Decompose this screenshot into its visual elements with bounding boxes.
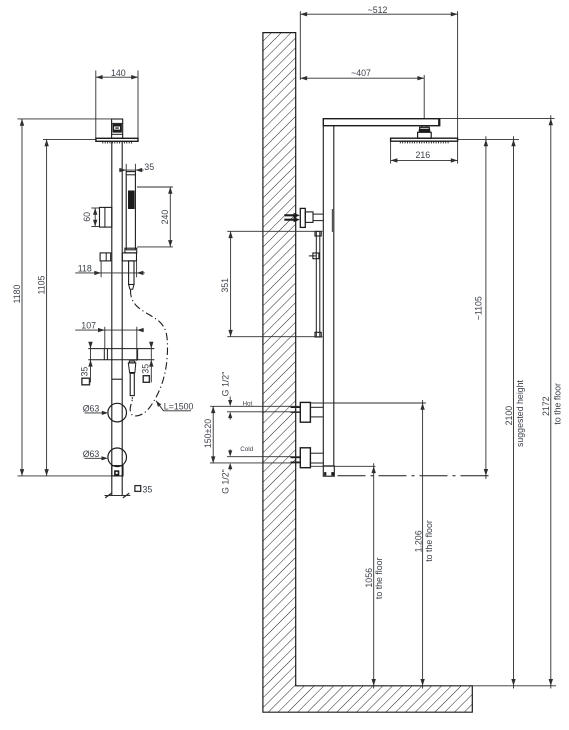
svg-text:Hot: Hot — [243, 400, 253, 407]
svg-text:351: 351 — [220, 278, 230, 293]
dimension square 35 bottom (front view) — [105, 484, 153, 498]
svg-text:1.206: 1.206 — [413, 530, 423, 552]
shower head plate (front view) — [96, 138, 138, 141]
svg-text:60: 60 — [82, 212, 92, 222]
svg-text:35: 35 — [144, 162, 154, 172]
label Hot — [243, 400, 253, 407]
dashed line column bottom level (side view) — [338, 475, 490, 477]
hot supply line to wall — [210, 406, 300, 412]
svg-text:to the floor: to the floor — [374, 557, 384, 599]
svg-text:118: 118 — [78, 263, 92, 273]
svg-text:~512: ~512 — [368, 5, 388, 15]
shower head nozzles (front view) — [103, 142, 132, 144]
dimension 1056 to the floor — [364, 463, 384, 688]
svg-text:~407: ~407 — [351, 68, 371, 78]
hand shower hose (dash-dot, front view) — [130, 290, 167, 416]
hose outlet connector (front view) — [128, 361, 136, 399]
hand shower body (front view) — [126, 172, 135, 250]
dimension 2172 to the floor — [541, 115, 563, 688]
dimension 107 (front view) — [75, 320, 144, 361]
dimension 118 (front view) — [75, 262, 145, 278]
top horizontal arm (side view) — [323, 119, 439, 126]
shower head ball joint (side view) — [418, 126, 432, 139]
svg-text:to the floor: to the floor — [424, 520, 434, 562]
cold valve bottom extension line — [310, 465, 375, 467]
wall rail (side view) — [315, 231, 321, 337]
diverter knob 1 (front view) — [108, 403, 127, 422]
column bar (front view) — [112, 141, 122, 495]
hand shower handle outlet (front view) — [129, 261, 134, 289]
label diameter 63 upper — [83, 404, 109, 415]
dimension 2100 suggested height — [504, 136, 525, 688]
hot valve top extension line — [310, 402, 426, 404]
svg-text:1180: 1180 — [12, 284, 22, 303]
column bottom cap (side view) — [323, 466, 334, 476]
dimension ~512 (side view) — [300, 5, 457, 138]
extension line arm to 2172 — [440, 117, 555, 119]
svg-text:G 1/2": G 1/2" — [221, 372, 231, 397]
svg-text:107: 107 — [81, 320, 96, 330]
supply flow arrows (black) — [284, 213, 300, 222]
water supply fitting (side view) — [300, 208, 323, 227]
svg-text:suggested height: suggested height — [515, 379, 525, 447]
svg-text:35: 35 — [140, 364, 150, 374]
dimension 1105 (front view) — [36, 139, 48, 476]
upper wall holder (front view) — [100, 207, 112, 227]
svg-text:35: 35 — [143, 484, 153, 494]
dimension 1.206 to the floor — [413, 400, 434, 689]
label G 1/2 inch top — [221, 372, 233, 420]
svg-text:Cold: Cold — [240, 446, 253, 453]
floor top extension line (right) — [472, 685, 556, 687]
wall and floor section (hatched) — [263, 33, 472, 713]
svg-text:G 1/2": G 1/2" — [221, 469, 231, 494]
dimension 351 (side view) — [220, 231, 322, 336]
label diameter 63 lower — [83, 449, 108, 461]
svg-text:~1105: ~1105 — [473, 296, 483, 320]
dimension 1180 (front view) — [12, 119, 24, 476]
dimension ~407 (side view) — [300, 68, 424, 119]
top bracket / arm mount (front view) — [112, 119, 123, 138]
lower holder bar (front view) — [88, 349, 154, 360]
dimension 240 (hand shower length) — [137, 187, 173, 247]
svg-text:Ø63: Ø63 — [83, 404, 100, 414]
label G 1/2 inch bottom — [221, 449, 233, 494]
dimension 216 (head, side view) — [391, 141, 458, 163]
extension line 1180 top — [18, 118, 112, 120]
dimension 35 (hand shower width) — [119, 162, 154, 172]
svg-text:2100: 2100 — [504, 406, 514, 426]
cold supply line to wall — [210, 457, 300, 463]
svg-text:35: 35 — [80, 367, 90, 377]
dimension 150±20 (side view) — [203, 406, 215, 463]
shower head plate (side view) — [391, 138, 458, 141]
cold water valve (side view) — [291, 448, 324, 468]
svg-text:1105: 1105 — [36, 275, 46, 294]
svg-text:to the floor: to the floor — [553, 383, 563, 425]
dimension 35 left (square profile) — [80, 342, 93, 385]
label Cold — [240, 446, 253, 453]
dimension ~1105 (side view) — [473, 136, 488, 479]
column bottom box with fixing screw (front view) — [112, 466, 123, 476]
svg-text:L=1500: L=1500 — [164, 401, 194, 411]
svg-text:2172: 2172 — [541, 396, 551, 416]
svg-text:150±20: 150±20 — [203, 419, 213, 448]
diverter knob 2 (front view) — [108, 448, 127, 467]
svg-text:1056: 1056 — [364, 568, 374, 588]
extension line bottom (front view) — [18, 475, 124, 477]
svg-text:140: 140 — [111, 68, 126, 78]
dimension 35 right (square profile) — [140, 342, 153, 383]
dimension 140 (head width, front view) — [96, 68, 138, 138]
extension line 1105 top — [43, 138, 96, 140]
svg-text:216: 216 — [415, 150, 430, 160]
hot water valve (side view) — [291, 402, 324, 422]
hand shower holder clamp (front view) — [100, 248, 137, 261]
rail fixing pin (side view) — [309, 253, 319, 259]
svg-text:Ø63: Ø63 — [83, 449, 100, 459]
dimension 60 (holder height) — [82, 208, 100, 227]
column bar (side view) — [323, 126, 334, 466]
shower head nozzles (side view) — [400, 142, 448, 144]
svg-text:240: 240 — [160, 210, 170, 225]
label L=1500 with leader — [156, 401, 194, 412]
extension line head to right dims — [458, 138, 519, 140]
